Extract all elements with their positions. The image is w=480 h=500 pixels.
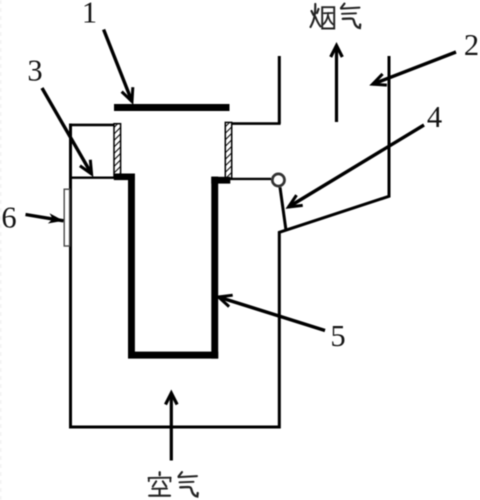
svg-text:1: 1: [82, 0, 97, 30]
svg-text:4: 4: [427, 100, 442, 134]
svg-text:5: 5: [330, 319, 345, 353]
svg-text:3: 3: [27, 54, 42, 88]
svg-text:2: 2: [464, 28, 479, 62]
svg-text:6: 6: [1, 200, 16, 234]
